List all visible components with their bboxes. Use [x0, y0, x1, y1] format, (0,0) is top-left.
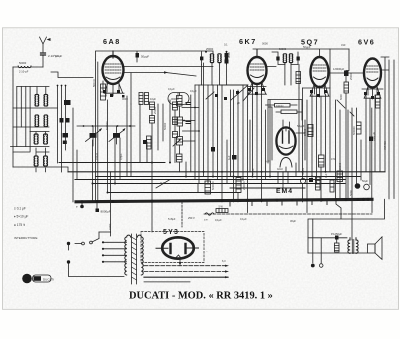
svg-text:D: D: [25, 277, 29, 283]
wire 6V6 anode to right rail: [381, 57, 394, 199]
svg-text:310 Ω: 310 Ω: [95, 153, 99, 160]
svg-text:0000: 0000: [122, 97, 128, 101]
svg-text:6,3: 6,3: [222, 259, 226, 263]
decoupling blobs left of 6K7: [225, 53, 229, 85]
svg-text:30μF: 30μF: [290, 219, 296, 223]
svg-text:INTERRUTTORE: INTERRUTTORE: [14, 236, 37, 240]
resistor cluster above bus right 1: [316, 177, 321, 190]
EM4 feed resistors: [266, 104, 303, 114]
svg-text:0,1μF: 0,1μF: [251, 168, 255, 175]
tube 6V6: [364, 59, 381, 100]
speaker feed wires: [308, 219, 367, 263]
resistor right band: [337, 171, 343, 182]
svg-text:310: 310: [341, 43, 346, 47]
resistor under 6V6: [376, 95, 381, 108]
wire IFT2 legs: [267, 63, 300, 89]
svg-text:2·10⁴μF: 2·10⁴μF: [19, 70, 29, 74]
vertical wires right: [303, 49, 381, 240]
svg-text:5000: 5000: [349, 190, 353, 196]
resistor 6Q7 cathode: [319, 155, 325, 167]
wire left rail: [12, 67, 14, 167]
vertical wires mid: [152, 63, 270, 232]
svg-text:5000: 5000: [339, 94, 343, 100]
svg-text:50μμF: 50μμF: [297, 124, 305, 128]
bus lower ticks: [230, 200, 327, 206]
svg-text:250 V: 250 V: [188, 216, 195, 220]
svg-text:● 175 ∃: ● 175 ∃: [14, 223, 25, 227]
resistor mid left: [147, 136, 152, 149]
wire left rails secondary: [17, 87, 30, 152]
resistor column B1: [173, 102, 178, 110]
resistor 1W horizontal: [182, 202, 228, 227]
svg-text:5 W: 5 W: [219, 206, 224, 209]
svg-text:50μμF: 50μμF: [141, 55, 149, 59]
svg-text:50000: 50000: [163, 122, 167, 130]
dashed enclosure around 5Y3: [141, 232, 204, 263]
svg-text:6K7: 6K7: [239, 37, 257, 46]
svg-text:0•0•0: 0•0•0: [277, 168, 283, 171]
antenna: [40, 37, 51, 67]
vertical wires under 6A8: [73, 60, 147, 236]
trimmer capacitor blob 2: [60, 118, 70, 123]
trimmer blob lower: [63, 141, 67, 145]
tuning capacitor section 2: [109, 126, 126, 144]
grid cap capacitor 50pF: [136, 53, 150, 59]
pin cluster 6K7: [248, 88, 265, 95]
svg-text:5Y3: 5Y3: [163, 229, 179, 236]
IF transformer 1: [200, 47, 228, 65]
wire switch to transformer top: [99, 231, 111, 233]
svg-text:500000: 500000: [211, 181, 215, 190]
svg-text:1•5000μF: 1•5000μF: [333, 67, 345, 71]
svg-text:25000: 25000: [153, 106, 157, 114]
svg-text:500000: 500000: [352, 126, 356, 135]
diagonal near 340: [337, 100, 354, 116]
svg-text:8000μF: 8000μF: [101, 210, 111, 214]
svg-text:0,1μF: 0,1μF: [215, 218, 222, 222]
svg-text:0μF: 0μF: [160, 181, 165, 185]
power transformer primary winding: [125, 235, 131, 275]
svg-text:6A8: 6A8: [103, 37, 121, 46]
svg-text:50μμF: 50μμF: [303, 45, 311, 49]
svg-text:50000: 50000: [301, 167, 305, 175]
svg-text:DUCATI: DUCATI: [43, 278, 54, 282]
tube 5Y3 rectifier: [156, 237, 199, 265]
svg-text:P.1250μF: P.1250μF: [331, 232, 342, 236]
resistor column B3: [173, 132, 178, 138]
grid resistor 6V6: [339, 76, 349, 200]
svg-text:0,5μF: 0,5μF: [119, 153, 123, 160]
svg-text:2·10⁴μF: 2·10⁴μF: [48, 54, 59, 58]
svg-text:1μF: 1μF: [227, 155, 231, 160]
RF coil pair 1: [35, 95, 48, 107]
pin cluster 6Q7: [310, 90, 327, 97]
svg-text:500000: 500000: [276, 106, 284, 108]
trimmer capacitor blob 1: [51, 72, 93, 172]
svg-text:≡ 0,1 μF: ≡ 0,1 μF: [14, 207, 26, 211]
svg-text:0000: 0000: [227, 52, 231, 58]
RF coil pair 2: [35, 115, 48, 127]
svg-text:DUCATI - MOD. « RR 3419. 1 »: DUCATI - MOD. « RR 3419. 1 »: [129, 291, 273, 302]
svg-text:0000: 0000: [262, 42, 268, 46]
svg-text:25000: 25000: [338, 162, 342, 170]
resistor pair under 6A8: [139, 93, 149, 105]
resistor 6Q7 grid: [303, 125, 313, 137]
wire 6A8 anode leads: [124, 67, 214, 105]
power transformer secondary winding: [138, 235, 144, 275]
resistor 181 r1: [177, 96, 183, 107]
svg-text:50000: 50000: [279, 47, 287, 51]
resistor cluster above bus right 2: [330, 180, 334, 192]
bus junction dots: [81, 198, 370, 203]
svg-text:1μF: 1μF: [324, 173, 328, 178]
tube 6K7: [248, 50, 267, 95]
resistor mid band 2: [236, 178, 241, 193]
capacitor circle 6Q7: [300, 178, 305, 183]
Ducati logo badge: [22, 274, 54, 284]
capacitor blob mid 2: [211, 147, 215, 152]
HT thick bus: [76, 199, 372, 202]
svg-text:EM4: EM4: [276, 188, 293, 195]
capacitor blob mid 3: [232, 155, 237, 160]
resistor column A2: [150, 116, 155, 124]
wire IFT1 legs: [202, 63, 248, 86]
svg-text:♦ 5×10 μF: ♦ 5×10 μF: [14, 215, 28, 219]
oscillator coil pair 4: [34, 156, 47, 166]
svg-text:5×8μF: 5×8μF: [168, 217, 176, 221]
oscillator loop under 6A8: [168, 93, 189, 105]
tube 6Q7: [310, 57, 329, 97]
antenna coupling coil: [13, 61, 43, 74]
extra band verticals: [198, 85, 299, 193]
svg-text:T: T: [76, 205, 78, 209]
band junction dots: [92, 162, 327, 194]
resistor right of IFT2: [296, 72, 301, 84]
svg-text:0000: 0000: [171, 97, 177, 101]
svg-text:25000: 25000: [206, 47, 214, 51]
svg-text:200000: 200000: [242, 181, 246, 190]
diagonal wire near pot: [156, 180, 170, 189]
svg-text:0,1μF: 0,1μF: [240, 217, 247, 221]
tuning capacitor section 1: [86, 126, 103, 146]
svg-text:500000: 500000: [105, 121, 109, 130]
capacitor bars right of resistor 2: [186, 122, 191, 124]
svg-text:25000: 25000: [349, 72, 353, 80]
wire screen bus over 6K7 6Q7: [253, 49, 349, 57]
output transformer: [348, 238, 358, 254]
wire coil interconnects: [11, 108, 69, 172]
ground terminal on bus: [76, 202, 84, 209]
tube 6A8: [103, 51, 125, 96]
power transformer core: [132, 234, 137, 284]
wire 6Q7 plate feed: [346, 49, 349, 71]
diagonal links under 6K7: [206, 85, 254, 101]
volume potentiometer: [173, 137, 183, 147]
svg-text:50000: 50000: [303, 128, 307, 136]
capacitor blob 6Q7 cluster: [309, 178, 313, 182]
wire under tube horizontals: [195, 85, 383, 89]
electrolytic 8000uF: [96, 202, 111, 214]
wire y126 link: [77, 125, 135, 127]
svg-text:INT.730: INT.730: [383, 141, 387, 150]
mains switch: [67, 232, 124, 277]
svg-text:310Ω: 310Ω: [108, 224, 112, 230]
tube EM4 magic eye: [276, 120, 295, 172]
svg-text:μF: μF: [237, 101, 240, 105]
pin cluster 6A8: [103, 90, 125, 98]
field coil capacitor: [331, 232, 342, 243]
blobs under 6K7: [215, 91, 239, 100]
scattered small value labels: [95, 42, 387, 264]
filament supply arrows: [144, 265, 229, 282]
svg-text:6V6: 6V6: [358, 38, 375, 47]
pin cluster 6V6: [364, 92, 380, 99]
right loop wires: [308, 199, 385, 253]
coupling capacitor 6Q7 to 6V6: [329, 67, 365, 76]
oscillator padder box under 6A8: [101, 84, 106, 100]
svg-text:0,1μF: 0,1μF: [168, 87, 175, 91]
svg-text:50μF: 50μF: [362, 179, 368, 183]
capacitor 240pF: [369, 132, 376, 141]
capacitor blob mid 1: [143, 140, 147, 144]
svg-text:50000: 50000: [19, 61, 27, 65]
electrolytic cans near bus: [355, 179, 370, 190]
resistor mid band 1: [205, 181, 211, 194]
field coil resistor: [335, 243, 340, 252]
resistor 181 r4: [177, 154, 183, 162]
trimmer capacitor blob 3: [63, 133, 69, 138]
resistor 500000 tall: [352, 122, 361, 135]
EM4 enclosure wires: [268, 100, 302, 164]
oscillator coil pair 3: [34, 134, 47, 144]
capacitor bars right of resistor: [186, 103, 191, 105]
junction dots pot column: [183, 107, 200, 132]
IF transformer 2: [272, 47, 300, 65]
wire coil top bus: [17, 87, 49, 95]
wire EM4 target lead: [296, 120, 305, 160]
link wires pot column: [180, 93, 200, 172]
resistor 181 r2: [177, 117, 183, 126]
svg-text:10μF: 10μF: [150, 97, 156, 101]
svg-text:47Ω: 47Ω: [331, 157, 336, 161]
resistor column B2: [173, 117, 178, 125]
horizontal band wires: [59, 162, 165, 164]
svg-text:0,1μF: 0,1μF: [190, 89, 197, 93]
wire top grid line: [96, 51, 214, 62]
junction dots y126: [83, 125, 131, 127]
transformer primary taps: [102, 241, 127, 263]
svg-text:1μF: 1μF: [265, 159, 270, 163]
resistor column A1: [150, 102, 155, 110]
speaker: [368, 237, 383, 260]
svg-text:0,1: 0,1: [224, 43, 228, 47]
